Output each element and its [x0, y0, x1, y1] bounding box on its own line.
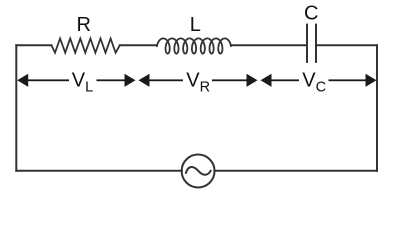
- wire right side: [376, 45, 378, 171]
- wire left side: [15, 45, 17, 171]
- voltage arrow VC head right: [366, 74, 377, 87]
- wire top segment inductor to capacitor: [231, 44, 306, 46]
- svg-text:C: C: [304, 3, 318, 25]
- voltage arrow VC shaft right: [329, 79, 367, 81]
- wire bottom right segment: [214, 170, 377, 172]
- wire top segment to resistor: [16, 44, 51, 46]
- ac source V1 circle: [182, 155, 215, 188]
- svg-text:R: R: [76, 14, 90, 36]
- wire top segment resistor to inductor: [120, 44, 157, 46]
- wire bottom left segment: [16, 170, 182, 172]
- voltage arrow VR head right: [247, 74, 258, 87]
- inductor L: [157, 38, 231, 53]
- voltage arrow VL head left: [17, 74, 28, 87]
- voltage arrow VC shaft left: [271, 79, 300, 81]
- voltage arrow VR shaft left: [149, 79, 184, 81]
- svg-text:VR: VR: [186, 69, 210, 95]
- svg-text:L: L: [190, 14, 201, 36]
- voltage arrow VL shaft right: [97, 79, 127, 81]
- wire top segment capacitor to corner: [317, 44, 377, 46]
- voltage arrow VL shaft left: [27, 79, 70, 81]
- voltage arrow VR head left: [139, 74, 150, 87]
- voltage arrow VR shaft right: [212, 79, 248, 81]
- ac source V1 sine wave: [186, 167, 211, 175]
- capacitor C plate right: [315, 25, 317, 62]
- svg-text:VC: VC: [302, 69, 326, 95]
- capacitor C plate left: [306, 25, 308, 62]
- voltage arrow VL head right: [125, 74, 136, 87]
- svg-text:VL: VL: [72, 69, 93, 95]
- resistor R: [52, 39, 120, 53]
- voltage arrow VC head left: [261, 74, 272, 87]
